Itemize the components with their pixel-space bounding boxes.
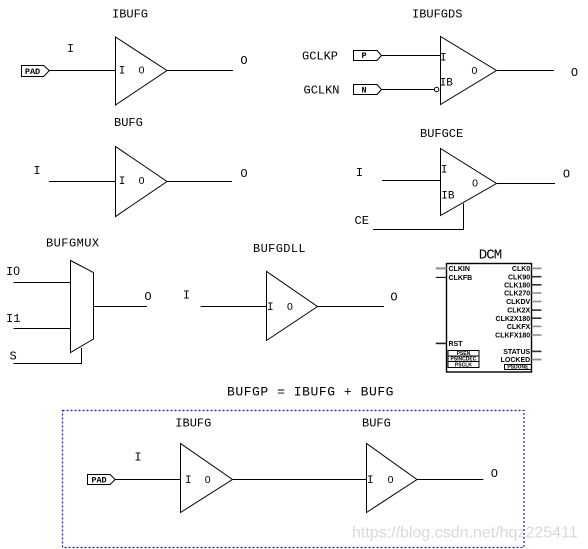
pad N (negative input pad)	[354, 85, 382, 96]
wire I to U4 input	[382, 180, 441, 182]
buffer U8 IBUFG (inside BUFGP)	[181, 444, 233, 513]
svg-text:IB: IB	[440, 77, 454, 89]
wire U1 output	[167, 70, 233, 72]
svg-text:BUFGP = IBUFG + BUFG: BUFGP = IBUFG + BUFG	[227, 385, 394, 400]
wire U8 output to U9 input	[233, 479, 367, 481]
svg-text:BUFG: BUFG	[114, 116, 143, 130]
pin stub CLKIN	[436, 267, 447, 269]
svg-text:I: I	[134, 451, 141, 465]
pin box PSDONE	[505, 365, 532, 370]
wire pad P to U2 pin I	[382, 55, 441, 57]
pin stub LOCKED	[532, 359, 542, 361]
DCM U7 body	[447, 264, 532, 373]
wire I1 to U5	[14, 328, 71, 330]
svg-text:CLK90: CLK90	[508, 274, 530, 281]
wire I to U6 input	[201, 306, 267, 308]
svg-text:CLK2X180: CLK2X180	[496, 316, 531, 323]
wire U3 output	[167, 181, 232, 183]
pad PAD1 (IBUFG input pad)	[22, 66, 50, 78]
svg-text:P: P	[361, 51, 366, 61]
svg-text:LOCKED: LOCKED	[501, 357, 531, 364]
svg-text:I: I	[119, 65, 126, 77]
svg-text:0: 0	[471, 65, 477, 77]
svg-text:O: O	[563, 168, 570, 182]
svg-text:I: I	[356, 166, 363, 180]
svg-text:O: O	[240, 167, 247, 181]
svg-text:0: 0	[287, 301, 293, 313]
svg-text:I: I	[119, 176, 126, 188]
pin stub CLK270	[532, 292, 542, 294]
svg-text:I1: I1	[6, 312, 20, 326]
svg-text:O: O	[144, 290, 151, 304]
svg-text:CLKDV: CLKDV	[506, 299, 530, 306]
wire U5 output	[94, 306, 148, 308]
svg-text:https://blog.csdn.net/hqz22541: https://blog.csdn.net/hqz225411	[352, 525, 578, 542]
pin stub RST	[436, 342, 447, 344]
pin stub CLK2X	[532, 309, 542, 311]
svg-text:CLKFX180: CLKFX180	[495, 333, 530, 340]
svg-text:0: 0	[205, 474, 211, 486]
svg-text:I0: I0	[6, 264, 20, 279]
wire pad N to U2 pin IB	[382, 89, 435, 91]
pin stub STATUS	[532, 350, 542, 352]
wire S to U5 select	[14, 348, 82, 364]
svg-text:DCM: DCM	[479, 248, 502, 264]
wire CE to U4 enable	[373, 204, 464, 230]
pin stub CLK2X180	[532, 317, 542, 319]
pin stub CLK0	[532, 267, 542, 269]
svg-text:I: I	[441, 164, 448, 176]
svg-text:I: I	[185, 475, 192, 487]
svg-text:BUFG: BUFG	[362, 417, 391, 431]
svg-text:IBUFG: IBUFG	[175, 417, 211, 431]
svg-text:0: 0	[139, 64, 145, 76]
svg-text:N: N	[361, 85, 366, 95]
svg-text:CLKFB: CLKFB	[449, 275, 473, 282]
inverting bubble on U2 pin IB	[434, 87, 438, 91]
svg-text:I: I	[67, 42, 74, 56]
pin stub CLKFX180	[532, 334, 542, 336]
svg-text:I: I	[367, 475, 374, 487]
svg-text:S: S	[10, 350, 17, 364]
pin stub CLKFB	[436, 276, 447, 278]
buffer U3 BUFG	[116, 147, 168, 217]
svg-text:O: O	[571, 66, 578, 80]
svg-text:CLK270: CLK270	[504, 291, 530, 298]
pin stub CLK90	[532, 276, 542, 278]
wire U2 output	[497, 70, 555, 72]
svg-text:CLKIN: CLKIN	[449, 266, 470, 273]
svg-text:BUFGDLL: BUFGDLL	[253, 242, 306, 256]
svg-text:PAD: PAD	[91, 476, 106, 486]
pin stub CLK180	[532, 284, 542, 286]
svg-text:0: 0	[388, 474, 394, 486]
svg-text:0: 0	[139, 175, 145, 187]
svg-text:O: O	[491, 467, 498, 481]
buffer U4 BUFGCE	[441, 149, 497, 216]
pad P (positive input pad)	[354, 51, 382, 62]
wire U4 output	[497, 183, 556, 185]
svg-text:BUFGMUX: BUFGMUX	[46, 237, 100, 251]
wire PAD1 to U1 input	[49, 70, 115, 72]
svg-text:IBUFGDS: IBUFGDS	[412, 8, 462, 22]
wire I to U3 input	[49, 181, 116, 183]
svg-text:CLKFX: CLKFX	[507, 324, 531, 331]
svg-text:I: I	[33, 164, 40, 178]
svg-text:I: I	[440, 52, 447, 64]
pin stub CLKFX	[532, 325, 542, 327]
buffer U2 IBUFGDS	[440, 37, 497, 105]
svg-text:GCLKN: GCLKN	[304, 84, 340, 98]
wire I0 to U5	[14, 282, 71, 284]
svg-text:PAD: PAD	[25, 67, 40, 77]
buffer U6 BUFGDLL	[267, 272, 318, 341]
pad PAD2 (BUFGP input pad)	[88, 475, 116, 486]
svg-text:GCLKP: GCLKP	[302, 50, 338, 64]
wire PAD2 to U8 input	[115, 479, 181, 481]
svg-text:BUFGCE: BUFGCE	[420, 127, 463, 141]
svg-text:STATUS: STATUS	[503, 349, 530, 356]
wire U6 output	[318, 306, 385, 308]
phase-shift pin group box (PSEN / PSINCDEC / PSCLK)	[448, 351, 479, 368]
wire U9 output	[417, 479, 483, 481]
svg-text:PSCLK: PSCLK	[455, 362, 472, 368]
BUFGP dashed boundary box	[63, 411, 525, 548]
svg-text:CLK180: CLK180	[504, 282, 530, 289]
svg-text:PSDONE: PSDONE	[507, 364, 529, 370]
pin stub CLKDV	[532, 301, 542, 303]
svg-text:O: O	[240, 54, 247, 68]
svg-text:O: O	[390, 291, 397, 305]
svg-text:CE: CE	[355, 214, 369, 228]
mux U5 BUFGMUX body	[71, 261, 94, 353]
buffer U1 IBUFG	[116, 37, 168, 105]
svg-text:IBUFG: IBUFG	[112, 8, 148, 22]
svg-text:IB: IB	[441, 190, 455, 202]
svg-text:RST: RST	[449, 341, 464, 348]
svg-text:CLK2X: CLK2X	[507, 308, 530, 315]
buffer U9 BUFG (inside BUFGP)	[367, 444, 418, 513]
svg-text:0: 0	[472, 178, 478, 190]
svg-text:CLK0: CLK0	[512, 266, 530, 273]
svg-text:I: I	[183, 289, 190, 303]
svg-text:I: I	[267, 302, 274, 314]
